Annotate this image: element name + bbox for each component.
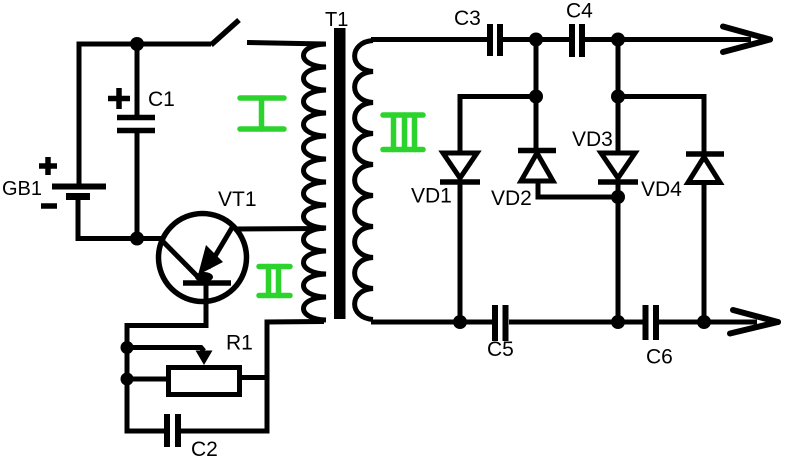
switch SA1 lever [211, 20, 239, 45]
svg-text:T1: T1 [325, 9, 348, 31]
R1 wiper arrowhead [196, 351, 213, 366]
transformer T1 core [334, 28, 346, 319]
wire battery plus up and top rail to switch [79, 44, 211, 186]
wire C2 left [125, 429, 165, 434]
wire VD4 cathode down to bottom rail [702, 182, 707, 322]
diode VD4 [686, 154, 724, 183]
transistor VT1 [159, 214, 247, 302]
wire top junction 1 down to VD2 [534, 40, 539, 151]
wire to R1 wiper with arrow [127, 348, 204, 352]
node VD2/VD3 junction [611, 190, 625, 204]
capacitor C5 plates [495, 305, 506, 341]
wire VD3 anode lead [616, 97, 621, 155]
bottom output arrow head [730, 310, 778, 334]
node bottom junction 1 [453, 315, 467, 329]
wire VD3 cathode down to bottom rail [616, 182, 621, 322]
capacitor C1 top lead [135, 44, 140, 116]
node A: C1 top junction [130, 37, 144, 51]
green winding number III [383, 115, 423, 150]
wire VT1 base down and left to R1 network [127, 283, 206, 431]
wire C5 to C6 [509, 320, 643, 325]
node bottom junction 3 [697, 315, 711, 329]
node bottom junction 2 [611, 315, 625, 329]
T1 primary winding I+II (left) [304, 44, 327, 320]
diode VD3 [598, 153, 638, 182]
green winding number I [240, 98, 284, 129]
svg-text:VD2: VD2 [491, 187, 532, 210]
node battery minus / C1 bottom junction [130, 232, 144, 246]
capacitor C4 plates [572, 24, 582, 57]
wire VD2 anode jog to VD3 cathode [538, 181, 618, 197]
capacitor C2 plates [167, 414, 178, 447]
wire right branch to T1 winding II bottom [267, 322, 324, 434]
node top junction 2 [611, 33, 625, 47]
wire T1 secondary top to C3 [371, 37, 490, 42]
svg-text:VD4: VD4 [641, 178, 682, 201]
capacitor C6 plates [646, 305, 657, 340]
battery GB1 plus sign [39, 157, 57, 175]
wire C2 right [181, 429, 269, 434]
green winding number II [259, 267, 290, 296]
svg-text:C3: C3 [454, 7, 481, 30]
svg-text:C6: C6 [646, 346, 673, 369]
node R1 left terminal junction [121, 373, 134, 386]
svg-text:VD3: VD3 [572, 128, 613, 151]
svg-text:VD1: VD1 [411, 185, 452, 208]
wire mid-left horizontal to VD1 anode [460, 97, 536, 155]
wire mid-right horizontal to VD4 anode [618, 97, 704, 155]
top output arrow head [723, 27, 770, 53]
T1 secondary winding III (right) [355, 41, 373, 320]
wire to R1 left terminal [127, 377, 169, 382]
svg-text:C2: C2 [191, 438, 218, 461]
battery GB1 minus sign [41, 203, 57, 209]
svg-text:C1: C1 [148, 88, 175, 111]
node mid junction 2 [611, 90, 625, 104]
wire C3 to C4 [503, 37, 572, 42]
capacitor C3 plates [490, 24, 500, 56]
svg-text:GB1: GB1 [2, 178, 42, 200]
capacitor C1 bottom lead [135, 132, 140, 239]
svg-text:C4: C4 [566, 0, 593, 23]
resistor R1 (potentiometer) body [169, 368, 240, 395]
wire C4 to top output [585, 37, 751, 42]
diode VD1 [440, 153, 480, 182]
node top junction 1 [529, 33, 543, 47]
wire battery minus to transistor [78, 196, 163, 239]
wire switch contact to T1 primary top [247, 43, 325, 45]
wire top junction 2 down [616, 40, 621, 97]
wire T1 secondary bottom to C5 [371, 320, 492, 325]
capacitor C1 plates [117, 118, 155, 131]
svg-text:R1: R1 [226, 332, 253, 355]
wire R1 right terminal [239, 375, 267, 380]
diode VD2 [518, 151, 556, 182]
node mid junction 1 [529, 90, 543, 104]
wire VD1 cathode down to bottom rail [458, 182, 463, 322]
wire C6 to bottom output [659, 320, 757, 325]
battery GB1 plates [52, 187, 106, 197]
svg-text:VT1: VT1 [218, 188, 257, 211]
C1 polarity plus sign [108, 88, 130, 109]
wire VT1 emitter to T1 winding tap [234, 226, 324, 232]
node R1 wiper junction [121, 341, 134, 354]
svg-text:C5: C5 [487, 338, 514, 361]
